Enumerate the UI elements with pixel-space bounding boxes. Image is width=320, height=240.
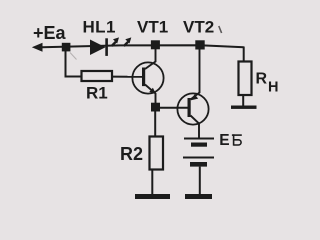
wire RH down — [242, 95, 244, 106]
label Eb letter b (flat-top) — [232, 134, 242, 145]
LED HL1 light arrow 1 — [112, 37, 119, 46]
ground bar under RH — [231, 106, 257, 109]
svg-text:R1: R1 — [86, 83, 108, 102]
wire node B to VT2 base — [160, 107, 188, 109]
node VT1 collector junction — [151, 40, 160, 49]
battery Eb plate short 1 — [191, 143, 207, 147]
wire node B down to R2 — [154, 112, 156, 137]
battery Eb plate long 1 — [184, 138, 214, 140]
svg-text:H: H — [268, 79, 278, 95]
wire R2 down — [151, 170, 153, 195]
svg-text:VT1: VT1 — [137, 17, 168, 36]
node VT2 emitter junction — [195, 40, 204, 49]
wire node A down — [66, 51, 81, 77]
LED HL1 cathode bar — [105, 38, 108, 56]
wire battery down — [199, 167, 201, 194]
transistor VT1 (NPN) — [132, 42, 163, 104]
resistor RH — [239, 62, 252, 96]
ground bar left — [135, 194, 170, 199]
node A junction — [62, 43, 71, 52]
ground bar right — [185, 194, 212, 199]
svg-text:R: R — [256, 71, 268, 88]
wire R1 to VT1 base — [112, 76, 142, 78]
svg-text:VT2: VT2 — [183, 17, 214, 36]
resistor R2 — [150, 137, 164, 170]
svg-text:+Ea: +Ea — [33, 23, 67, 43]
speck artifact right of VT2 label — [219, 26, 222, 33]
battery Eb plate short 2 — [190, 162, 207, 167]
scratch artifact near node A — [70, 53, 77, 60]
wire top rail — [42, 45, 244, 47]
resistor R1 — [82, 71, 113, 81]
node B emitter junction — [151, 103, 160, 112]
battery Eb plate long 2 — [183, 157, 214, 159]
wire top rail corner to RH — [243, 47, 245, 62]
transistor VT2 (PNP) — [177, 42, 208, 138]
svg-text:HL1: HL1 — [83, 17, 116, 36]
LED HL1 diode triangle — [90, 40, 106, 56]
LED HL1 light arrow 2 — [124, 37, 131, 46]
terminal arrow +Ea — [32, 43, 43, 52]
svg-text:E: E — [219, 132, 229, 149]
svg-text:R2: R2 — [120, 144, 143, 164]
